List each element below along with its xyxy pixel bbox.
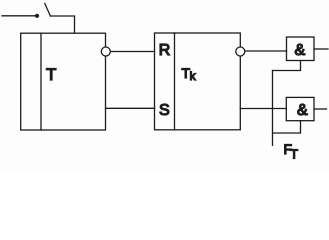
block Tk inner divider: [174, 33, 176, 130]
switch S1 arm: [45, 4, 51, 17]
svg-text:&: &: [297, 102, 308, 119]
wire: U1 second input elbow: [273, 61, 301, 71]
wire: Tk output to AND gate U1: [245, 50, 287, 52]
node circle at Tk output: [236, 47, 245, 56]
wire: switch to T block: [50, 16, 74, 33]
svg-text:FT: FT: [284, 141, 299, 162]
block T inner divider: [40, 33, 42, 130]
wire: switch input lead: [2, 15, 36, 17]
node circle at T output: [101, 47, 110, 56]
AND gate U2 box: [286, 97, 314, 120]
AND gate U1 box: [287, 37, 315, 61]
wire: S line (T to Tk S input): [106, 107, 155, 109]
wire: R line (T output to Tk R input): [110, 51, 154, 53]
wire: Tk lower output to AND gate U2: [240, 108, 286, 110]
svg-text:S: S: [159, 102, 170, 119]
svg-text:&: &: [295, 42, 306, 59]
block T outline: [21, 33, 106, 130]
svg-text:Tk: Tk: [182, 65, 197, 83]
wire: U2 second input elbow: [273, 121, 301, 133]
wire: F_T vertical feed line: [272, 71, 274, 146]
svg-text:R: R: [159, 42, 171, 59]
wire: U2 output: [314, 108, 327, 110]
svg-text:T: T: [46, 65, 56, 84]
wire: U1 output: [314, 48, 328, 50]
block Tk outline: [155, 33, 241, 130]
switch S1 contact dot: [35, 14, 39, 18]
